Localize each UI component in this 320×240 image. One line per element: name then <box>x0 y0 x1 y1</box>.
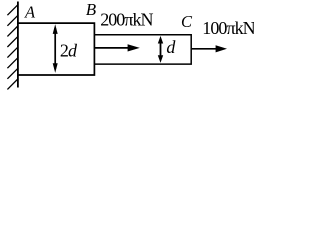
bar BC outline (small segment d) <box>94 35 191 64</box>
svg-text:d: d <box>166 37 176 57</box>
svg-text:B: B <box>86 0 97 19</box>
dimension arrow 2d <box>53 24 58 73</box>
dimension arrow d <box>158 36 163 63</box>
svg-text:A: A <box>24 2 36 21</box>
svg-text:2d: 2d <box>60 41 78 61</box>
wall line <box>17 2 19 88</box>
svg-text:C: C <box>181 12 193 31</box>
svg-text:100πkN: 100πkN <box>202 18 254 38</box>
wall hatching <box>7 4 18 89</box>
bar AB outline (large segment 2d) <box>18 23 94 75</box>
svg-text:200πkN: 200πkN <box>100 9 153 29</box>
force arrow 100πkN at C <box>192 45 227 52</box>
force arrow 200πkN at B <box>95 44 140 51</box>
